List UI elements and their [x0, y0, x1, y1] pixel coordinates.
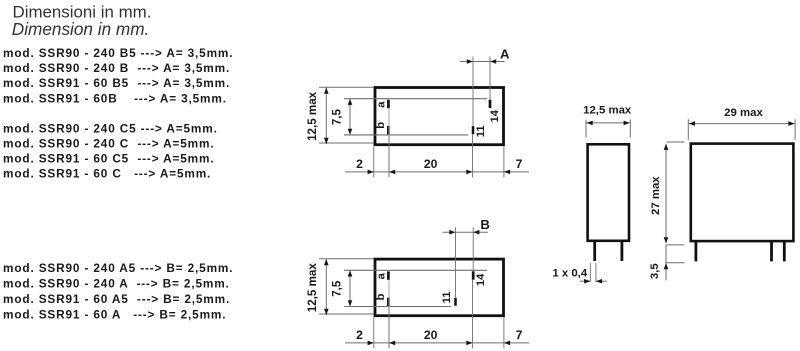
pin row line b — [344, 134, 468, 136]
relay body outline (front view) — [691, 144, 794, 242]
dimension line 29 max — [689, 123, 795, 125]
dimension A (pin offset) — [460, 61, 505, 63]
extension line top of body — [667, 141, 685, 143]
svg-text:b: b — [375, 293, 387, 300]
svg-text:mod. SSR90 - 240 A5 ---> B= 2,: mod. SSR90 - 240 A5 ---> B= 2,5mm. — [3, 261, 233, 275]
svg-text:11: 11 — [475, 125, 487, 137]
svg-text:7: 7 — [516, 328, 523, 342]
svg-text:1 x 0,4: 1 x 0,4 — [552, 268, 587, 280]
svg-text:mod. SSR90 - 240 A ---> B= 2,: mod. SSR90 - 240 A ---> B= 2,5mm. — [3, 277, 230, 291]
svg-text:20: 20 — [424, 157, 438, 171]
bottom dimension chain 2 / 20 / 7 — [345, 171, 529, 173]
pin row line a — [344, 269, 487, 271]
svg-text:B: B — [480, 217, 490, 232]
svg-text:mod. SSR90 - 240 C ---> A=5mm: mod. SSR90 - 240 C ---> A=5mm. — [3, 137, 214, 151]
svg-text:7,5: 7,5 — [331, 108, 344, 125]
extension line bottom of body — [667, 244, 685, 246]
svg-text:27 max: 27 max — [650, 176, 662, 215]
pin row line b — [344, 306, 451, 308]
svg-text:Dimension in mm.: Dimension in mm. — [12, 19, 150, 39]
extension line pin ends — [667, 262, 685, 264]
extension lines of bottom chain — [373, 317, 375, 348]
svg-text:2: 2 — [356, 157, 363, 171]
svg-text:12,5 max: 12,5 max — [306, 91, 319, 141]
relay body outline (bottom view) — [375, 259, 504, 316]
svg-text:b: b — [375, 122, 387, 129]
svg-text:11: 11 — [441, 292, 453, 304]
dimension line 12,5 max — [587, 122, 630, 124]
front view pin 3 — [783, 241, 786, 261]
svg-text:12,5 max: 12,5 max — [306, 263, 319, 313]
extension lines for 12,5 max — [319, 86, 374, 88]
svg-text:mod. SSR91 - 60 A5 ---> B= 2,: mod. SSR91 - 60 A5 ---> B= 2,5mm. — [3, 292, 230, 306]
front view pin 1 — [695, 241, 698, 261]
pin 11 — [454, 298, 457, 306]
relay body outline (bottom view) — [375, 88, 504, 145]
extension ticks — [585, 120, 587, 138]
svg-text:mod. SSR90 - 240 C5 ---> A=5mm: mod. SSR90 - 240 C5 ---> A=5mm. — [3, 122, 218, 136]
svg-text:mod. SSR91 - 60B ---> A= 3,: mod. SSR91 - 60B ---> A= 3,5mm. — [3, 91, 227, 105]
svg-text:mod. SSR90 - 240 B5 ---> A= 3,: mod. SSR90 - 240 B5 ---> A= 3,5mm. — [3, 46, 233, 60]
svg-text:mod. SSR91 - 60 C5 ---> A=5mm: mod. SSR91 - 60 C5 ---> A=5mm. — [3, 152, 214, 166]
svg-text:20: 20 — [424, 328, 438, 342]
pin cross-section dimension 1 x 0,4 — [589, 263, 591, 282]
dimension 12,5 max — [325, 259, 327, 315]
side view pin right — [621, 241, 624, 261]
dimension 12,5 max — [325, 88, 327, 145]
dimension 3,5 (pin length) — [665, 245, 667, 281]
dimension 7,5 — [349, 270, 351, 306]
bottom dimension chain 2 / 20 / 7 — [345, 342, 529, 344]
pin 14 — [489, 100, 492, 108]
extension lines for 12,5 max — [319, 258, 374, 260]
svg-text:mod. SSR90 - 240 B ---> A= 3,: mod. SSR90 - 240 B ---> A= 3,5mm. — [3, 61, 230, 75]
svg-text:7,5: 7,5 — [331, 280, 344, 297]
dimension 7,5 — [349, 99, 351, 135]
svg-text:mod. SSR91 - 60 B5 ---> A= 3,: mod. SSR91 - 60 B5 ---> A= 3,5mm. — [3, 76, 230, 90]
pin b — [387, 126, 390, 134]
dimension 27 max — [665, 144, 667, 244]
dimension B (pin offset) — [443, 231, 488, 233]
pin 14 — [472, 271, 475, 279]
svg-text:A: A — [500, 46, 510, 61]
svg-text:12,5 max: 12,5 max — [583, 104, 632, 116]
pin a — [387, 100, 390, 108]
pin b — [387, 298, 390, 306]
svg-text:a: a — [376, 272, 388, 279]
extension lines of bottom chain — [373, 146, 375, 177]
pin 11 — [472, 126, 475, 134]
pin a — [387, 271, 390, 279]
front view pin 2 — [770, 241, 773, 261]
pin row line a — [344, 98, 487, 100]
svg-text:mod. SSR91 - 60 A ---> B= 2,: mod. SSR91 - 60 A ---> B= 2,5mm. — [3, 307, 226, 321]
svg-text:14: 14 — [489, 109, 501, 122]
svg-text:14: 14 — [475, 273, 487, 286]
extension ticks — [687, 119, 689, 140]
svg-text:7: 7 — [516, 157, 523, 171]
svg-text:3,5: 3,5 — [649, 263, 661, 279]
svg-text:mod. SSR91 - 60 C ---> A=5mm: mod. SSR91 - 60 C ---> A=5mm. — [3, 167, 211, 181]
side view pin left — [593, 241, 596, 261]
relay body outline (side view) — [588, 144, 629, 241]
svg-text:a: a — [376, 101, 388, 108]
svg-text:2: 2 — [356, 328, 363, 342]
svg-text:29 max: 29 max — [724, 107, 763, 119]
